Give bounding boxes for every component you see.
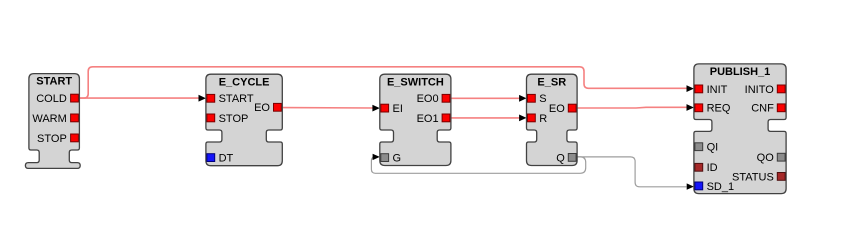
- svg-text:CNF: CNF: [751, 103, 774, 115]
- event output STOP: [71, 134, 79, 142]
- data input G: [381, 154, 389, 162]
- event output COLD: [71, 94, 79, 102]
- wire E_SWITCH.EO0 to E_SR.S: [451, 97, 521, 99]
- arrow into E_SR.S: [519, 95, 526, 102]
- svg-text:COLD: COLD: [36, 93, 67, 105]
- svg-text:INIT: INIT: [707, 84, 728, 96]
- function block PUBLISH_1: [694, 64, 786, 194]
- event output WARM: [71, 114, 79, 122]
- event input STOP: [207, 114, 215, 122]
- svg-text:INITO: INITO: [745, 84, 775, 96]
- svg-text:PUBLISH_1: PUBLISH_1: [710, 66, 771, 78]
- function block E_SR: [527, 74, 578, 165]
- event output CNF: [777, 104, 785, 112]
- svg-text:ID: ID: [707, 162, 718, 174]
- event output EO: [274, 103, 282, 111]
- event output EO0: [442, 94, 450, 102]
- svg-text:R: R: [539, 113, 547, 125]
- svg-text:QO: QO: [757, 152, 775, 164]
- event output EO1: [442, 114, 450, 122]
- svg-text:Q: Q: [556, 152, 565, 164]
- svg-text:EO1: EO1: [417, 113, 439, 125]
- svg-text:QI: QI: [707, 142, 719, 154]
- svg-text:SD_1: SD_1: [707, 181, 735, 193]
- event output EO: [568, 104, 576, 112]
- arrow into PUBLISH_1.SD_1: [687, 183, 694, 189]
- wire COLD to E_CYCLE.START: [79, 97, 199, 99]
- data output Q: [568, 154, 576, 162]
- arrow into E_SWITCH.G: [373, 154, 380, 160]
- data input DT: [207, 154, 215, 162]
- svg-text:REQ: REQ: [707, 103, 731, 115]
- event input INIT: [695, 85, 703, 93]
- svg-text:EO0: EO0: [417, 93, 439, 105]
- event input EI: [381, 104, 389, 112]
- svg-text:E_CYCLE: E_CYCLE: [219, 76, 270, 88]
- data input SD_1: [695, 182, 703, 190]
- wire COLD to PUBLISH_1.INIT: [79, 67, 687, 98]
- wire E_SR.Q to E_SWITCH.G: [371, 157, 585, 174]
- svg-text:WARM: WARM: [32, 113, 66, 125]
- svg-text:STOP: STOP: [37, 133, 67, 145]
- arrow into E_CYCLE.START: [199, 95, 206, 102]
- data input ID: [695, 163, 703, 171]
- svg-text:EO: EO: [549, 103, 565, 115]
- svg-text:EO: EO: [254, 102, 270, 114]
- function block START: [25, 74, 80, 169]
- wire E_SR.Q to PUBLISH_1.SD_1: [577, 157, 687, 187]
- svg-text:G: G: [393, 153, 402, 165]
- svg-text:START: START: [219, 93, 254, 105]
- svg-text:S: S: [539, 93, 546, 105]
- event input S: [528, 94, 536, 102]
- function block E_SWITCH: [380, 74, 451, 165]
- event input START: [207, 94, 215, 102]
- wire E_CYCLE.EO to E_SWITCH.EI: [282, 107, 373, 109]
- wire E_SR.EO to PUBLISH_1.REQ: [577, 106, 687, 109]
- arrow into E_SR.R: [519, 115, 526, 122]
- event output INITO: [777, 85, 785, 93]
- svg-text:E_SWITCH: E_SWITCH: [387, 76, 444, 88]
- svg-text:EI: EI: [393, 103, 403, 115]
- arrow into PUBLISH_1.REQ: [687, 104, 694, 111]
- svg-text:STOP: STOP: [219, 113, 249, 125]
- function block E_CYCLE: [206, 74, 282, 166]
- arrow into PUBLISH_1.INIT: [687, 85, 694, 92]
- arrow into E_SWITCH.EI: [372, 105, 379, 112]
- svg-text:E_SR: E_SR: [537, 76, 566, 88]
- event input REQ: [695, 104, 703, 112]
- data input QI: [695, 143, 703, 151]
- data output STATUS: [777, 173, 785, 181]
- data output QO: [777, 153, 785, 161]
- svg-text:START: START: [36, 76, 72, 88]
- svg-text:DT: DT: [219, 153, 234, 165]
- svg-text:STATUS: STATUS: [732, 171, 774, 183]
- event input R: [528, 114, 536, 122]
- wire E_SWITCH.EO1 to E_SR.R: [451, 117, 521, 119]
